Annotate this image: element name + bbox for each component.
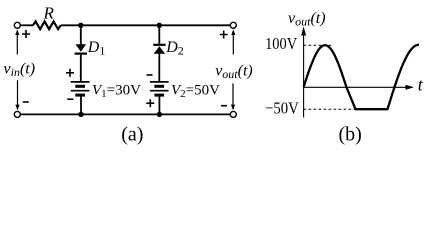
wire bottom (21, 113, 231, 115)
terminal bottom-left (14, 111, 20, 117)
plus sign right port (220, 31, 228, 39)
diode D2 (153, 44, 165, 46)
svg-text:D2: D2 (165, 39, 184, 58)
wire branch V2 bottom (158, 95, 160, 114)
minus sign left port (23, 101, 29, 103)
battery V2 (150, 81, 169, 83)
graph t-axis (304, 86, 408, 88)
resistor R (33, 21, 61, 29)
minus sign V1 (67, 98, 73, 100)
dashed -50V level (304, 108, 388, 110)
node junction top D1 (78, 23, 83, 28)
plus sign V2 (146, 99, 154, 107)
wire branch D1-V1 (80, 55, 82, 82)
terminal top-left (14, 22, 20, 28)
minus sign right port (221, 105, 227, 107)
svg-text:(a): (a) (121, 123, 143, 145)
wire branch D2-V2 (158, 54, 160, 82)
wire branch D1 top (80, 25, 82, 44)
svg-text:vin(t): vin(t) (4, 60, 36, 79)
terminal top-right (230, 22, 236, 28)
svg-text:(b): (b) (339, 123, 362, 145)
svg-text:R: R (43, 4, 55, 23)
battery V1 (71, 81, 90, 83)
vin upper arrow (16, 32, 18, 55)
svg-text:D1: D1 (87, 39, 106, 58)
dashed 100V level (304, 44, 332, 46)
svg-text:V1=30V: V1=30V (92, 83, 141, 101)
diode D1 (76, 44, 87, 52)
plus sign V1 (66, 69, 74, 77)
wire top middle (61, 24, 234, 26)
svg-text:100V: 100V (265, 34, 298, 53)
minus sign V2 (147, 74, 153, 76)
node junction top D2 (157, 23, 162, 28)
waveform curve (304, 45, 419, 110)
wire branch V1 bottom (80, 95, 82, 114)
svg-text:vout(t): vout(t) (215, 63, 253, 82)
svg-text:−50V: −50V (265, 98, 299, 117)
vout lower arrow (232, 83, 234, 108)
vin lower arrow (17, 80, 19, 108)
svg-text:V2=50V: V2=50V (171, 83, 220, 101)
svg-text:vout(t): vout(t) (288, 10, 326, 29)
wire branch D2 top (158, 25, 160, 44)
node junction bottom V1 (78, 112, 83, 117)
node junction bottom V2 (157, 112, 162, 117)
terminal bottom-right (230, 111, 236, 117)
svg-text:t: t (418, 75, 424, 95)
wire top left segment (20, 24, 33, 26)
plus sign left port (22, 30, 30, 38)
graph y-axis (303, 33, 305, 118)
vout upper arrow (232, 32, 234, 55)
